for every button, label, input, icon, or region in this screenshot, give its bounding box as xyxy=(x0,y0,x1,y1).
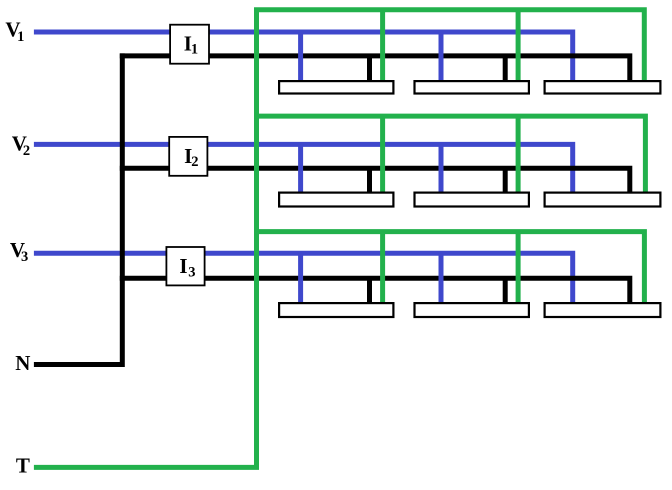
wire: earth drop row1 socket1 xyxy=(380,10,385,84)
wire: earth bus row 3 with drop to socket 3 xyxy=(254,232,644,306)
socket outlet row3 col3 xyxy=(545,303,661,317)
wire: earth drop row2 socket1 xyxy=(380,116,385,196)
wire: earth bus row 2 with drop to socket 3 xyxy=(254,116,645,196)
wire: neutral drop row3 socket2 xyxy=(503,278,508,306)
wire: neutral drop row2 socket2 xyxy=(503,168,508,196)
svg-text:2: 2 xyxy=(191,154,198,170)
svg-text:1: 1 xyxy=(191,42,198,58)
wire: phase V3 blue bus with drop to socket 3 xyxy=(34,253,573,306)
wire: earth drop row3 socket1 xyxy=(380,232,385,306)
socket outlet row2 col2 xyxy=(415,193,529,207)
svg-text:2: 2 xyxy=(23,143,30,159)
wire: earth drop row2 socket2 xyxy=(516,116,521,196)
svg-text:T: T xyxy=(16,454,30,478)
ammeter I1 box xyxy=(170,25,209,64)
wire: neutral drop row2 socket1 xyxy=(367,168,372,196)
svg-text:1: 1 xyxy=(17,29,24,45)
wire: neutral drop row1 socket2 xyxy=(503,56,508,84)
svg-text:I: I xyxy=(179,254,187,278)
svg-text:3: 3 xyxy=(188,265,195,281)
wire: blue drop row3 socket2 xyxy=(439,253,444,306)
socket outlet row2 col1 xyxy=(279,193,393,207)
socket outlet row1 col3 xyxy=(545,81,661,93)
wire: neutral bus row 3 with drop to socket 3 xyxy=(120,278,630,306)
wire: neutral drop row1 socket1 xyxy=(367,56,372,84)
wire: blue drop row2 socket1 xyxy=(298,144,303,196)
socket outlet row3 col1 xyxy=(279,303,393,317)
socket outlet row1 col2 xyxy=(415,81,529,93)
ammeter I3 box xyxy=(166,247,204,285)
wire: earth drop row3 socket2 xyxy=(516,232,521,306)
wire: neutral drop row3 socket1 xyxy=(367,278,372,306)
socket outlet row3 col2 xyxy=(415,303,529,317)
wire: blue drop row3 socket1 xyxy=(298,253,303,306)
socket outlet row1 col1 xyxy=(279,81,393,93)
wire: neutral bus row 1 with drop to socket 3 xyxy=(120,56,630,84)
wire: phase V2 blue bus with drop to socket 3 xyxy=(34,144,573,196)
wire: blue drop row1 socket2 xyxy=(439,32,444,84)
socket outlet row2 col3 xyxy=(545,193,661,207)
wire: phase V1 blue bus with drop to socket 3 xyxy=(34,32,573,84)
wire: blue drop row2 socket2 xyxy=(439,144,444,196)
svg-text:N: N xyxy=(15,351,30,375)
wire: blue drop row1 socket1 xyxy=(298,32,303,84)
wire: earth drop row1 socket2 xyxy=(516,10,521,84)
ammeter I2 box xyxy=(169,137,207,176)
svg-text:3: 3 xyxy=(21,249,28,265)
wire: neutral N feeder and vertical trunk xyxy=(34,53,122,364)
wire: neutral bus row 2 with drop to socket 3 xyxy=(120,168,630,196)
